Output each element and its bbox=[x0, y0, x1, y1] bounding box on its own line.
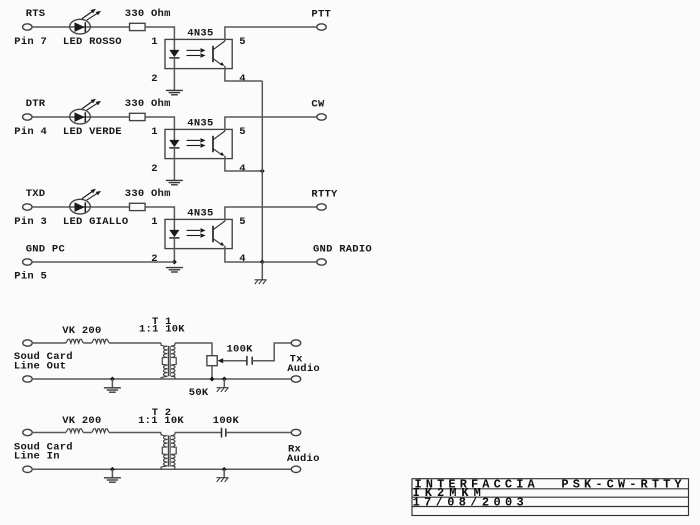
node Rx Audio top terminal bbox=[291, 429, 300, 435]
node RTTY output terminal bbox=[317, 204, 326, 210]
transformer winding primary bbox=[161, 433, 168, 470]
junction chassis tap Tx bbox=[222, 377, 227, 382]
junction pot bottom bbox=[210, 377, 215, 382]
ground bbox=[104, 478, 121, 482]
wire common bus bbox=[261, 81, 263, 262]
wire line in bottom bbox=[32, 468, 292, 470]
transformer winding secondary bbox=[171, 343, 176, 379]
transformer core bbox=[168, 346, 170, 376]
wire cathode pin 2 down to GND PC line bbox=[173, 238, 175, 262]
wire GND RADIO line bbox=[262, 261, 317, 263]
ground bbox=[166, 180, 183, 184]
svg-text:Line Out: Line Out bbox=[14, 361, 66, 373]
wire pin 4 to bus junction bbox=[225, 246, 262, 262]
node Sound Card Line Out bottom terminal bbox=[23, 376, 32, 382]
wire chassis tap Rx bbox=[223, 469, 225, 477]
wire input line bbox=[32, 206, 130, 208]
chassis ground Rx bbox=[217, 478, 229, 482]
ground bbox=[104, 388, 121, 392]
title block frame bbox=[412, 479, 689, 516]
svg-text:LED ROSSO: LED ROSSO bbox=[63, 36, 122, 48]
wire pin 5 to output bbox=[225, 207, 317, 221]
node DTR input terminal bbox=[23, 114, 32, 120]
svg-text:1: 1 bbox=[151, 126, 158, 138]
wire cap to Rx Audio bbox=[226, 432, 292, 434]
optocoupler U1 4N35 bbox=[165, 39, 232, 68]
wire resistor to optocoupler anode bbox=[145, 117, 174, 140]
wire input line bbox=[32, 26, 130, 28]
node Tx Audio top terminal bbox=[291, 340, 300, 346]
ground bbox=[166, 268, 183, 272]
capacitor C2 100K bbox=[222, 428, 226, 438]
svg-text:5: 5 bbox=[239, 216, 246, 228]
svg-text:2: 2 bbox=[151, 73, 158, 85]
svg-text:VK 200: VK 200 bbox=[62, 415, 101, 427]
junction chassis tap Rx bbox=[222, 467, 227, 472]
svg-text:GND RADIO: GND RADIO bbox=[313, 244, 372, 256]
svg-text:5: 5 bbox=[239, 36, 246, 48]
svg-text:Line In: Line In bbox=[14, 451, 60, 463]
wire line out top bbox=[32, 342, 66, 344]
chassis ground Tx bbox=[217, 388, 229, 392]
wire line in top bbox=[32, 432, 66, 434]
svg-text:2: 2 bbox=[151, 253, 158, 265]
resistor R2 330 Ohm bbox=[130, 113, 146, 120]
svg-text:4N35: 4N35 bbox=[187, 208, 213, 220]
LED D3 LED GIALLO bbox=[70, 189, 101, 214]
LED D2 LED VERDE bbox=[70, 99, 101, 124]
wire ground tap bbox=[111, 379, 113, 388]
node Tx Audio bottom terminal bbox=[291, 376, 300, 382]
wire resistor to optocoupler anode bbox=[145, 207, 174, 230]
wire secondary top to pot bbox=[175, 343, 212, 356]
wire secondary top to cap T2 bbox=[175, 432, 221, 434]
svg-text:330 Ohm: 330 Ohm bbox=[125, 98, 171, 110]
choke L1 VK 200 bbox=[66, 339, 83, 343]
transformer winding secondary bbox=[171, 433, 176, 470]
node GND PC terminal bbox=[23, 259, 32, 265]
junction pin4 bus bbox=[260, 169, 265, 174]
svg-text:17/08/2003: 17/08/2003 bbox=[413, 496, 529, 510]
svg-text:LED VERDE: LED VERDE bbox=[63, 126, 122, 138]
node CW output terminal bbox=[317, 114, 326, 120]
wire pot bottom bbox=[211, 366, 213, 379]
svg-text:RTTY: RTTY bbox=[311, 189, 338, 201]
svg-text:330 Ohm: 330 Ohm bbox=[125, 188, 171, 200]
svg-text:4N35: 4N35 bbox=[187, 28, 213, 40]
transformer core bbox=[168, 435, 170, 466]
wire cap to Tx Audio bbox=[252, 343, 291, 361]
transformer winding primary bbox=[161, 343, 168, 379]
node GND RADIO terminal bbox=[317, 259, 326, 265]
choke L2 VK 200 bbox=[66, 429, 83, 433]
ground bbox=[166, 90, 183, 94]
svg-text:4: 4 bbox=[239, 253, 246, 265]
svg-text:Pin 3: Pin 3 bbox=[14, 216, 47, 228]
wire cathode pin 2 to ground bbox=[173, 58, 175, 91]
junction bottom ground tap bbox=[110, 377, 115, 382]
svg-text:4: 4 bbox=[239, 73, 246, 85]
svg-text:Pin 7: Pin 7 bbox=[14, 36, 47, 48]
optocoupler U3 4N35 bbox=[165, 219, 232, 248]
svg-text:RTS: RTS bbox=[26, 8, 46, 20]
svg-text:50K: 50K bbox=[189, 387, 209, 399]
node Sound Card Line In bottom terminal bbox=[23, 466, 32, 472]
svg-text:5: 5 bbox=[239, 126, 246, 138]
svg-text:1: 1 bbox=[151, 216, 158, 228]
potentiometer wiper arrow bbox=[218, 358, 224, 363]
node Sound Card Line In top terminal bbox=[23, 429, 32, 435]
wire input line bbox=[32, 116, 130, 118]
svg-text:CW: CW bbox=[311, 99, 325, 111]
svg-text:LED GIALLO: LED GIALLO bbox=[63, 216, 129, 228]
svg-text:1: 1 bbox=[151, 36, 158, 48]
resistor R3 330 Ohm bbox=[130, 203, 146, 210]
choke L2 second section bbox=[92, 429, 109, 433]
wire cathode pin 2 to ground bbox=[173, 148, 175, 181]
node TXD input terminal bbox=[23, 204, 32, 210]
wire pin 4 to common bus bbox=[225, 66, 262, 81]
svg-text:1:1 10K: 1:1 10K bbox=[138, 415, 184, 427]
wire pin 4 to common bus bbox=[225, 156, 262, 171]
wire bus to chassis ground bbox=[261, 262, 263, 280]
junction pin2 GND PC bbox=[172, 260, 177, 265]
resistor R1 330 Ohm bbox=[130, 23, 146, 30]
wire pin 5 to output bbox=[225, 117, 317, 131]
svg-text:100K: 100K bbox=[227, 344, 254, 356]
svg-text:Pin 5: Pin 5 bbox=[14, 270, 47, 282]
chassis ground radio bbox=[255, 280, 267, 284]
svg-text:330 Ohm: 330 Ohm bbox=[125, 8, 171, 20]
wire choke to transformer T2 bbox=[109, 432, 161, 434]
svg-text:1:1 10K: 1:1 10K bbox=[139, 323, 185, 335]
wire between choke sections bbox=[83, 342, 92, 344]
wire chassis tap bbox=[223, 379, 225, 387]
node Rx Audio bottom terminal bbox=[291, 466, 300, 472]
wire ground tap T2 bbox=[111, 469, 113, 477]
wire pin 5 to output bbox=[225, 27, 317, 41]
potentiometer 50K body bbox=[207, 356, 217, 366]
svg-text:DTR: DTR bbox=[26, 98, 46, 110]
node RTS input terminal bbox=[23, 24, 32, 30]
optocoupler U2 4N35 bbox=[165, 129, 232, 158]
wire GND PC line bbox=[32, 261, 175, 263]
capacitor C1 100K bbox=[247, 356, 252, 366]
node PTT output terminal bbox=[317, 24, 326, 30]
wire between choke sections T2 bbox=[83, 432, 92, 434]
svg-text:Audio: Audio bbox=[287, 363, 320, 375]
svg-text:GND PC: GND PC bbox=[26, 244, 66, 256]
svg-text:4N35: 4N35 bbox=[187, 118, 213, 130]
junction bus GND RADIO bbox=[260, 260, 265, 265]
wire line out bottom bbox=[32, 378, 292, 380]
svg-text:2: 2 bbox=[151, 163, 158, 175]
svg-text:TXD: TXD bbox=[26, 188, 46, 200]
svg-text:100K: 100K bbox=[213, 415, 240, 427]
svg-text:VK 200: VK 200 bbox=[62, 325, 101, 337]
svg-text:Audio: Audio bbox=[287, 453, 320, 465]
wire choke to transformer bbox=[109, 342, 161, 344]
svg-text:Pin 4: Pin 4 bbox=[14, 126, 47, 138]
svg-text:4: 4 bbox=[239, 163, 246, 175]
LED D1 LED ROSSO bbox=[70, 9, 101, 34]
junction bottom ground tap T2 bbox=[110, 467, 115, 472]
node Sound Card Line Out top terminal bbox=[23, 340, 32, 346]
svg-text:PTT: PTT bbox=[311, 9, 331, 21]
wire resistor to optocoupler anode bbox=[145, 27, 174, 50]
choke L1 second section bbox=[92, 339, 109, 343]
